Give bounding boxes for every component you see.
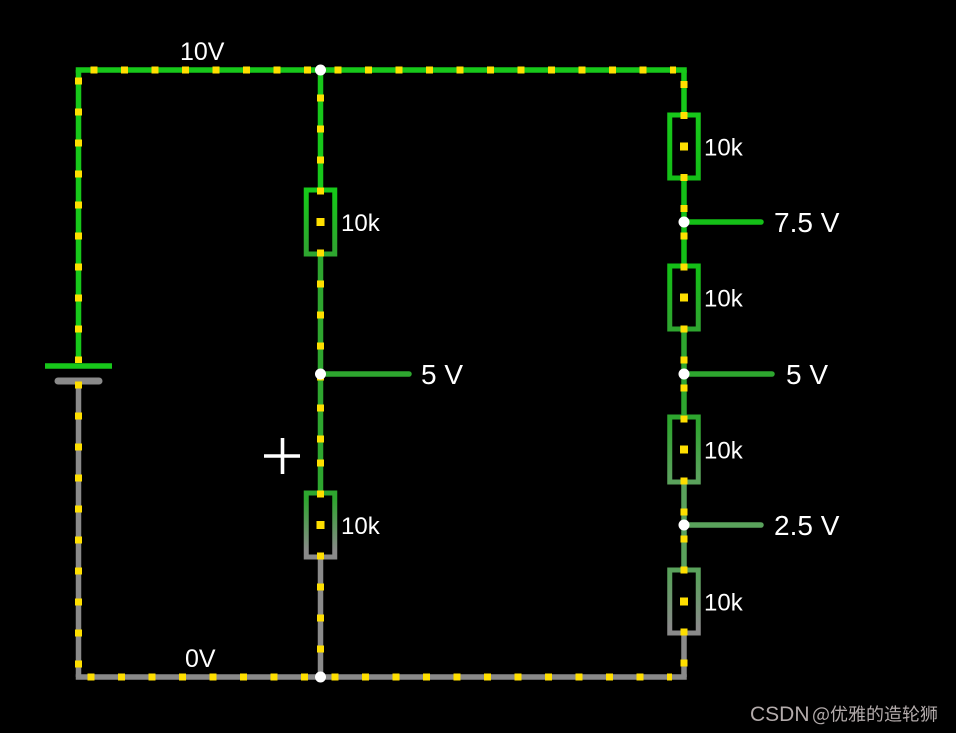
svg-text:10k: 10k <box>704 286 744 313</box>
label: 7.5 V right probe <box>774 207 840 238</box>
resistor R5 10k (right branch, 5V-2.5V) <box>670 417 699 482</box>
wire: middle branch 0V segment <box>318 557 324 677</box>
node: right 2.5V probe point <box>679 520 690 531</box>
resistor R6 10k (right branch, 2.5V-0V) <box>670 570 699 633</box>
wire: 7.5V probe stub <box>684 219 761 225</box>
svg-text:10k: 10k <box>341 210 381 237</box>
wire: 5V probe stub right <box>684 371 772 377</box>
wire: top 10V rail <box>76 67 687 73</box>
label: 10k resistor value at (704,297.5) <box>704 286 744 313</box>
wire current dots: right branch section 2 <box>681 233 688 373</box>
svg-text:0V: 0V <box>185 645 216 673</box>
node: right 5V probe point <box>679 369 690 380</box>
wire current dots: top rail <box>91 67 677 74</box>
svg-text:10k: 10k <box>704 590 744 617</box>
wire: right branch 10V segment <box>681 70 687 115</box>
svg-text:10k: 10k <box>704 438 744 465</box>
wire: middle branch 10V segment <box>318 70 324 190</box>
wire current dots: right branch section 3 <box>681 385 688 524</box>
wire: bottom 0V rail <box>76 674 687 680</box>
node: middle 5V probe point <box>315 369 326 380</box>
label: 2.5 V right probe <box>774 510 840 541</box>
wire: right branch 5V segment <box>681 329 687 417</box>
svg-text:CSDN: CSDN <box>750 703 810 726</box>
wire current dots: bottom rail <box>88 674 673 681</box>
label: 5 V middle probe <box>421 359 463 390</box>
label: 10k resistor value at (341,222) <box>341 210 381 237</box>
wire current dots: left branch lower <box>75 382 82 678</box>
svg-text:2.5 V: 2.5 V <box>774 510 840 541</box>
resistor R1 10k (middle branch upper) <box>306 190 335 254</box>
mouse crosshair cursor <box>264 438 300 474</box>
wire: left branch lower (battery negative lead, 0V) <box>76 383 82 677</box>
wire current dots: left branch upper <box>75 78 82 364</box>
node: bottom rail / middle branch junction <box>315 672 326 683</box>
label: 10k resistor value at (704,449.5) <box>704 438 744 465</box>
label: 5 V right probe <box>786 359 828 390</box>
svg-text:10k: 10k <box>341 513 381 540</box>
wire current dots: middle branch upper <box>317 95 324 453</box>
node: right 7.5V probe point <box>679 217 690 228</box>
resistor R4 10k (right branch, 7.5V-5V) <box>670 266 699 329</box>
wire: 2.5V probe stub <box>684 522 761 528</box>
resistor R3 10k (right branch, 10V-7.5V) <box>670 115 699 178</box>
svg-text:10k: 10k <box>704 135 744 162</box>
resistor R2 10k (middle branch lower) <box>306 493 335 557</box>
label: 10k resistor value at (704,146.5) <box>704 135 744 162</box>
node: top rail / middle branch junction <box>315 65 326 76</box>
wire: right branch 7.5V segment <box>681 178 687 266</box>
wire: right branch 2.5V segment <box>681 482 687 570</box>
wire: left branch upper (battery positive lead) <box>76 70 82 363</box>
wire: 5V probe stub at middle node <box>321 371 410 377</box>
label: 10k resistor value at (704,601.5) <box>704 590 744 617</box>
svg-text:7.5 V: 7.5 V <box>774 207 840 238</box>
wire current dots: middle branch lower <box>317 460 324 678</box>
watermark: CSDN @优雅的造轮狮 <box>750 703 937 726</box>
svg-text:10V: 10V <box>180 38 225 66</box>
voltage source V1 10V battery: positive plate <box>45 363 112 369</box>
svg-text:5 V: 5 V <box>421 359 463 390</box>
wire current dots: right branch section 1 <box>681 81 688 220</box>
label: 10k resistor value at (341,525) <box>341 513 381 540</box>
wire: middle branch 5V segment <box>318 254 324 493</box>
label: 10V source voltage <box>180 38 225 66</box>
voltage source V1 10V battery: negative plate <box>58 378 99 385</box>
wire current dots: right branch section 4 <box>681 536 688 678</box>
wire: right branch 0V segment <box>681 633 687 677</box>
label: 0V ground rail <box>185 645 216 673</box>
svg-text:5 V: 5 V <box>786 359 828 390</box>
